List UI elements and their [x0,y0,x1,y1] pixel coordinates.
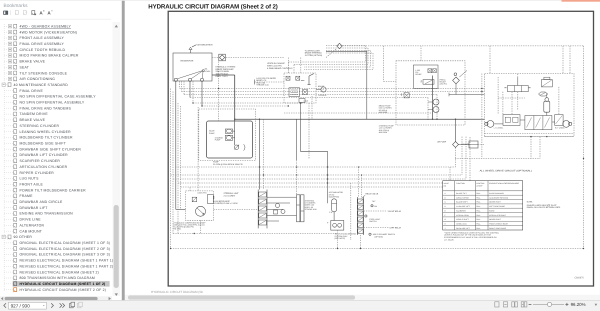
accumulator charge valve block [396,61,465,125]
awd flow divider box [503,115,520,126]
lock pin solenoid [192,197,197,202]
svg-text:(SEE NOTE): (SEE NOTE) [335,237,346,240]
toolbar: delete bookmark (disabled) [23,11,26,15]
svg-text:R.H. WHEEL: R.H. WHEEL [555,127,565,130]
svg-text:LH BLADE LIFT: LH BLADE LIFT [456,205,470,208]
svg-text:PRES. 7 B.13: PRES. 7 B.13 [216,75,228,78]
svg-text:2250 PSI: 2250 PSI [440,83,448,86]
svg-text:SEAT: SEAT [20,65,30,69]
panel horizontal scrollbar [0,296,112,301]
window top hairline [0,0,562,1]
brake pressure gauge [321,87,326,92]
pilot drops into AWD block [562,46,564,74]
svg-text:SCARIFIER CYLINDER: SCARIFIER CYLINDER [20,159,61,163]
svg-text:F: F [445,214,446,217]
left long return lines [170,89,172,249]
svg-text:(OPTION): (OPTION) [375,235,384,238]
svg-text:4WD MOTOR (VICKERS/EATON): 4WD MOTOR (VICKERS/EATON) [20,30,78,34]
svg-text:NOTE:: NOTE: [527,200,533,203]
svg-text:GR PUMP: GR PUMP [437,140,447,143]
relay bank drain [360,235,362,249]
pump case drain [197,107,199,191]
relay valve supply drops [358,167,360,197]
svg-text:MOLDBOARD SIDE SHIFT: MOLDBOARD SIDE SHIFT [20,142,67,146]
panel/main divider [122,0,125,301]
steering pump circle [433,107,439,113]
awd motor left [487,121,494,128]
reservoir return drain lines [175,81,177,209]
air breather [190,50,192,53]
svg-text:POWER TILT MOLDBOARD CARRIER: POWER TILT MOLDBOARD CARRIER [20,188,87,192]
panel toolbar: show/hide panel button [3,11,8,15]
svg-text:SWITCH: SWITCH [369,220,377,223]
svg-text:BRAKE: BRAKE [318,85,325,88]
nav: previous view icon [70,303,74,307]
awd accumulator [545,98,549,102]
brake solenoid valves [286,76,290,80]
bookmarks tree dotted guide line [3,24,5,291]
brake check valve [303,90,308,95]
brake light switch box F [331,221,344,231]
brake pump circle [433,99,439,105]
svg-text:REVISED ELECTRICAL DIAGRAM (SH: REVISED ELECTRICAL DIAGRAM (SHEET 1 PART… [20,264,114,268]
cylinder supply drop [296,119,298,160]
svg-text:ORIGINAL ELECTRICAL DIAGRAM (S: ORIGINAL ELECTRICAL DIAGRAM (SHEET 1 OF … [20,241,111,245]
charge valve inner box [413,65,438,88]
strainer fan lines [177,71,203,79]
svg-text:PUMP: PUMP [209,132,215,135]
junction dots (bus) [327,166,328,167]
right relay line [364,210,388,212]
svg-text:L.H. VALVE.: L.H. VALVE. [444,238,455,241]
additional drain verticals [177,103,179,234]
svg-text:40 MAINTENANCE STANDARD: 40 MAINTENANCE STANDARD [14,83,69,87]
awd return drops [530,137,532,159]
stop light switch [365,215,367,217]
awd top solenoid [541,80,552,87]
lock pin cylinder box [186,191,214,220]
svg-text:BRAKE VALVE: BRAKE VALVE [20,60,46,64]
svg-text:LEVEL: LEVEL [205,70,211,73]
awd steering valve [508,86,529,92]
svg-text:DRIVE LINE: DRIVE LINE [20,218,42,222]
toolbar: new bookmark (disabled) [15,11,18,15]
svg-text:MICO PARKING BRAKE CALIPER: MICO PARKING BRAKE CALIPER [20,54,79,58]
svg-text:927 / 930: 927 / 930 [11,304,31,309]
svg-text:FINAL DRIVE AND TANDEMS: FINAL DRIVE AND TANDEMS [20,106,72,110]
svg-text:PULL: PULL [476,196,480,199]
low pressure return lines (long horizontal bus) [175,166,455,168]
relay valve bank [356,197,358,235]
zoom in [565,303,568,306]
charge valve drops [432,76,434,120]
svg-text:LOCKED: LOCKED [319,94,327,97]
svg-text:3600 RPM: 3600 RPM [379,111,388,114]
lines to steering cylinders [267,196,297,198]
svg-text:CIRCLE TOOTH REBUILD: CIRCLE TOOTH REBUILD [20,48,66,52]
svg-text:RAISE: RAISE [489,209,495,212]
svg-text:STROKE 1.00: STROKE 1.00 [256,84,268,87]
svg-text:RH BLADE LIFT: RH BLADE LIFT [456,227,470,230]
svg-text:WHEEL LEAN: WHEEL LEAN [456,223,467,226]
svg-text:HYDRAULIC CIRCUIT DIAGRAM (Sh: HYDRAULIC CIRCUIT DIAGRAM (Sh [151,290,203,294]
svg-text:& PARK BRAKE CONTROLS: & PARK BRAKE CONTROLS [267,67,293,70]
svg-text:RIGHT RELAY: RIGHT RELAY [388,210,401,213]
nav: last page chevrons [60,303,65,308]
brake valve cluster [284,73,316,103]
svg-text:POSITION RESPONSE: POSITION RESPONSE [489,182,520,185]
svg-text:MOLDBOARD TILT CYLINDER: MOLDBOARD TILT CYLINDER [20,136,73,140]
svg-text:HYDRAULIC CIRCUIT DIAGRAM (She: HYDRAULIC CIRCUIT DIAGRAM (Sheet 2 of 2) [148,3,278,10]
svg-text:L.H. WHEEL: L.H. WHEEL [494,127,504,130]
bottom return bus [171,248,584,250]
svg-text:ENGINE AND TRANSMISSION: ENGINE AND TRANSMISSION [20,212,74,216]
svg-text:CAB MOUNT: CAB MOUNT [20,229,43,233]
awd internal pilot connectors [497,77,499,115]
charge block return drops [461,137,463,175]
svg-text:LOCK PIN: LOCK PIN [198,192,207,195]
awd left supply line [481,74,483,159]
valve function table [443,181,523,230]
svg-text:RE 1350: RE 1350 [174,228,181,231]
svg-text:PUMP: PUMP [215,139,221,142]
svg-text:3600 RPM: 3600 RPM [379,131,388,134]
svg-text:MOVES RIGHT: MOVES RIGHT [489,201,501,204]
nav: page number field 927 / 930 [8,302,46,309]
svg-text:ALTERNATOR: ALTERNATOR [20,224,45,228]
svg-text:ALL WHEEL DRIVE CIRCUIT (OPTIO: ALL WHEEL DRIVE CIRCUIT (OPTIONAL) [480,169,533,172]
svg-text:AIR CONDITIONING: AIR CONDITIONING [20,77,56,81]
svg-text:NO SPIN DIFFERENTIAL ASSEMBLY: NO SPIN DIFFERENTIAL ASSEMBLY [20,101,85,105]
pilot bundle nested corners [326,45,366,47]
charge check valve [404,93,409,98]
main document area [125,0,600,301]
svg-text:BLADE SHIFT: BLADE SHIFT [456,201,468,204]
svg-text:RIPPER CYLINDER: RIPPER CYLINDER [20,171,55,175]
main pressure line [235,118,485,120]
svg-text:90 OTHER: 90 OTHER [14,235,33,239]
svg-text:BLADE TILT: BLADE TILT [456,192,467,195]
steering cylinders [297,195,300,222]
charge block top feed [420,46,422,61]
right pilot drop line [583,46,585,249]
pilot drop to charge block [383,46,385,82]
svg-text:SCARIFIER: SCARIFIER [456,209,466,212]
bookmarks panel background [0,0,122,311]
svg-text:PULL: PULL [476,214,480,217]
svg-text:SYSTEM (OPTION): SYSTEM (OPTION) [305,54,323,57]
svg-text:MOVES RIGHT: MOVES RIGHT [489,218,501,221]
pump relief valve [234,145,238,149]
svg-text:PULL: PULL [476,192,480,195]
steering control valve bank [257,190,259,229]
svg-text:HYDRAULIC CIRCUIT DIAGRAM (SHE: HYDRAULIC CIRCUIT DIAGRAM (SHEET 1 OF 2) [20,282,106,286]
svg-text:ORIGINAL ELECTRICAL DIAGRAM (S: ORIGINAL ELECTRICAL DIAGRAM (SHEET 3 OF … [20,253,111,257]
svg-text:FUNCTION: FUNCTION [456,182,465,185]
svg-text:FINAL DRIVE ASSEMBLY: FINAL DRIVE ASSEMBLY [20,42,65,46]
svg-text:LEFT SIDE RAISE: LEFT SIDE RAISE [489,205,506,208]
svg-text:LEVER *: LEVER * [476,184,483,187]
svg-text:RIGHT SIDE RAISE: RIGHT SIDE RAISE [489,227,507,230]
nav: next page chevron [51,303,53,308]
svg-text:PULL: PULL [476,205,480,208]
svg-text:CIRCLE SHIFT: CIRCLE SHIFT [456,218,469,221]
compensating pump to steering unit line [214,208,259,210]
svg-text:21.3 CU/REV: 21.3 CU/REV [224,195,236,198]
status bar [0,301,600,311]
awd right valve [555,115,563,126]
svg-text:CLOCKWISE ROTATION: CLOCKWISE ROTATION [489,196,509,199]
svg-text:PULL: PULL [476,227,480,230]
oil level sight [202,70,204,72]
brake pedal [308,76,310,85]
return line filter [212,57,218,59]
awd control valve [525,116,552,130]
svg-text:FRONT AXLE: FRONT AXLE [20,183,44,187]
filter drain to pump case [218,62,220,122]
charge pump symbol [225,135,232,140]
drain bus horizontals [180,88,485,90]
svg-text:23 GPM @ 2500 RPM & 1800 PSI: 23 GPM @ 2500 RPM & 1800 PSI [213,163,243,166]
svg-text:STEERING CYLINDER: STEERING CYLINDER [20,124,60,128]
svg-text:DRAWBAR LIFT CYLINDER: DRAWBAR LIFT CYLINDER [20,153,69,157]
svg-text:TILT STEERING CONSOLE: TILT STEERING CONSOLE [20,71,68,75]
left relay line [364,227,389,229]
svg-text:LEFT RELAY: LEFT RELAY [390,227,402,230]
reservoir tank [173,53,212,81]
svg-text:RELAY VALVE: RELAY VALVE [366,193,379,196]
awd bottom header lines [485,133,575,135]
svg-text:CM0870: CM0870 [575,276,585,279]
valve bank supply [259,119,261,189]
lock pin relief [207,195,213,204]
cluster return drop [299,103,301,151]
steering pilot gauges [276,204,280,208]
gear pump symbol [225,129,232,133]
svg-text:800 TRANSMISSION WITH AWD DIAG: 800 TRANSMISSION WITH AWD DIAGRAM [20,276,95,280]
svg-text:CIRCLE DRIVE: CIRCLE DRIVE [456,196,470,199]
suction strainer ports [174,78,177,81]
svg-text:REVISED ELECTRICAL DIAGRAM (SH: REVISED ELECTRICAL DIAGRAM (SHEET 1 PART… [20,259,114,263]
lock pin port [299,99,305,103]
pilot bundle solid supply [326,50,367,52]
svg-text:TANDEM DRIVE: TANDEM DRIVE [20,112,49,116]
pilot junction diamond [337,43,342,48]
svg-text:RELIEF: RELIEF [415,73,422,76]
svg-text:AIR BREATHER: AIR BREATHER [197,44,213,47]
svg-text:DRAWBAR LIFT: DRAWBAR LIFT [20,206,49,210]
svg-text:EQUIPPED): EQUIPPED) [329,196,340,199]
main horizontal scrollbar [125,295,600,301]
awd motor right [563,121,570,128]
svg-text:FRAME: FRAME [20,194,34,198]
svg-text:REVISED ELECTRICAL DIAGRAM (SH: REVISED ELECTRICAL DIAGRAM (SHEET 2) [20,270,100,274]
pump assembly dashed enclosure [199,109,256,160]
svg-text:BLADE BACKWARD: BLADE BACKWARD [489,192,504,195]
svg-text:RESERVOIR: RESERVOIR [181,60,194,63]
awd filter hex [539,92,548,96]
pilot branch diagonal [326,49,337,58]
svg-text:FRONT AXLE ASSEMBLY: FRONT AXLE ASSEMBLY [20,36,65,40]
svg-text:CYLINDER, FLOW = 2 GPM: CYLINDER, FLOW = 2 GPM [213,202,238,205]
cluster left pilot stub [255,81,285,83]
suction line to pump [212,74,235,76]
svg-text:DRAWBAR SIDE SHIFT CYLINDER: DRAWBAR SIDE SHIFT CYLINDER [20,147,82,151]
charge pressure valve [423,80,434,85]
svg-text:ARTICULATE RIGHT: ARTICULATE RIGHT [489,214,506,217]
schmidt switch note [369,233,371,235]
toolbar: locate bookmark [32,11,35,15]
accumulator supply line [449,94,485,96]
svg-text:LUG NUTS: LUG NUTS [20,177,40,181]
toolbar highlight remnant (salmon) [562,0,600,2]
svg-text:HYDRAULIC CIRCUIT DIAGRAM (SHE: HYDRAULIC CIRCUIT DIAGRAM (SHEET 2 OF 2) [20,288,107,292]
svg-text:NO.: NO. [444,184,448,187]
svg-text:ARTICULATION CYLINDER: ARTICULATION CYLINDER [20,165,68,169]
zoom slider [533,303,564,305]
svg-text:DRAIN, OR LOW PSI RETURN LINES: DRAIN, OR LOW PSI RETURN LINES. [527,206,561,209]
compensating pump circle [196,206,206,216]
charge filter [454,73,457,76]
svg-text:ORIGINAL ELECTRICAL DIAGRAM (S: ORIGINAL ELECTRICAL DIAGRAM (SHEET 2 OF … [20,247,111,251]
view mode icons [495,302,499,307]
svg-text:96.20%: 96.20% [571,302,586,307]
junction dots [481,88,482,89]
diagram sheet border [168,11,593,286]
all wheel drive block [485,74,575,137]
svg-text:NO SPIN DIFFERENTIAL CASE ASSE: NO SPIN DIFFERENTIAL CASE ASSEMBLY [20,95,97,99]
tandem pump assembly box [207,121,253,158]
nav: next view icon (disabled) [77,303,81,307]
svg-text:PULL: PULL [476,218,480,221]
svg-text:PULL: PULL [476,209,480,212]
svg-text:LEANING WHEEL CYLINDER: LEANING WHEEL CYLINDER [20,130,72,134]
svg-text:BRAKE VALVE: BRAKE VALVE [20,118,46,122]
svg-text:PULL: PULL [476,201,480,204]
pilot line to charge block [284,112,433,114]
svg-text:STROKE 9.06: STROKE 9.06 [305,208,317,211]
svg-text:Bookmarks: Bookmarks [4,3,29,9]
svg-text:PULL: PULL [476,223,480,226]
svg-text:ARTICULATION: ARTICULATION [456,214,469,217]
shuttle valve [289,88,300,97]
lock pin drain [200,220,202,233]
pilot line across top [342,45,583,47]
svg-text:4WD - GEARBOX ASSEMBLY: 4WD - GEARBOX ASSEMBLY [20,24,72,28]
cluster pilot risers [287,62,289,73]
cooler box [469,141,478,148]
svg-text:DRAWBAR AND CIRCLE: DRAWBAR AND CIRCLE [20,200,63,204]
svg-text:FINAL DRIVE: FINAL DRIVE [20,89,44,93]
panel vertical scrollbar [113,22,121,296]
nav: previous page chevron [4,303,6,308]
zoom out [529,303,532,305]
svg-text:FRONT WHEELS RIGHT: FRONT WHEELS RIGHT [489,223,508,226]
